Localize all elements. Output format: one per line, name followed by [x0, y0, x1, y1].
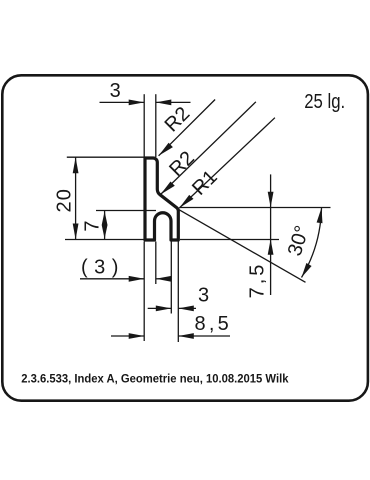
30 degree slope line — [179, 210, 306, 283]
svg-text:8,5: 8,5 — [195, 313, 232, 335]
top dimension 3 extension lines — [143, 94, 145, 157]
bottom extension line x144 — [143, 242, 145, 342]
bottom extension line x178 — [177, 242, 179, 343]
drawing frame border — [2, 75, 368, 400]
svg-text:2.3.6.533, Index A, Geometrie: 2.3.6.533, Index A, Geometrie neu, 10.08… — [21, 371, 289, 385]
bottom extension line x171 — [170, 242, 172, 314]
horizontal reference line right of profile point — [180, 207, 331, 209]
profile outline (cross-section) — [145, 158, 178, 240]
svg-text:25 lg.: 25 lg. — [304, 91, 345, 113]
dimension 20 line — [75, 157, 77, 239]
svg-text:20: 20 — [53, 188, 75, 213]
angle arc 30 degrees — [302, 208, 322, 278]
radius leader R2 top-right corner — [159, 100, 216, 156]
extension line top-left horizontal — [67, 156, 144, 158]
svg-text:7,5: 7,5 — [246, 262, 268, 299]
dimension 3 bottom lines and arrows — [148, 307, 172, 309]
bottom extension line x156 — [155, 242, 157, 285]
svg-text:7: 7 — [81, 220, 103, 231]
svg-text:3: 3 — [198, 285, 209, 307]
radius leader R2 diagonal bend — [161, 102, 256, 195]
extension line bottom-left horizontal — [65, 239, 144, 241]
svg-text:(3): (3) — [81, 257, 125, 279]
svg-text:3: 3 — [110, 80, 121, 102]
dimension 7,5 vertical line — [270, 174, 272, 295]
extension line slot-top horizontal — [96, 210, 156, 212]
dimension (3) lines and arrows — [80, 278, 144, 280]
top dimension 3 lines and arrows — [100, 101, 145, 103]
extension line bottom-right horizontal — [180, 239, 279, 241]
dimension 8,5 lines and arrows — [111, 335, 144, 337]
radius leader R1 lower point — [179, 118, 275, 208]
dimension 7 line — [104, 211, 106, 240]
